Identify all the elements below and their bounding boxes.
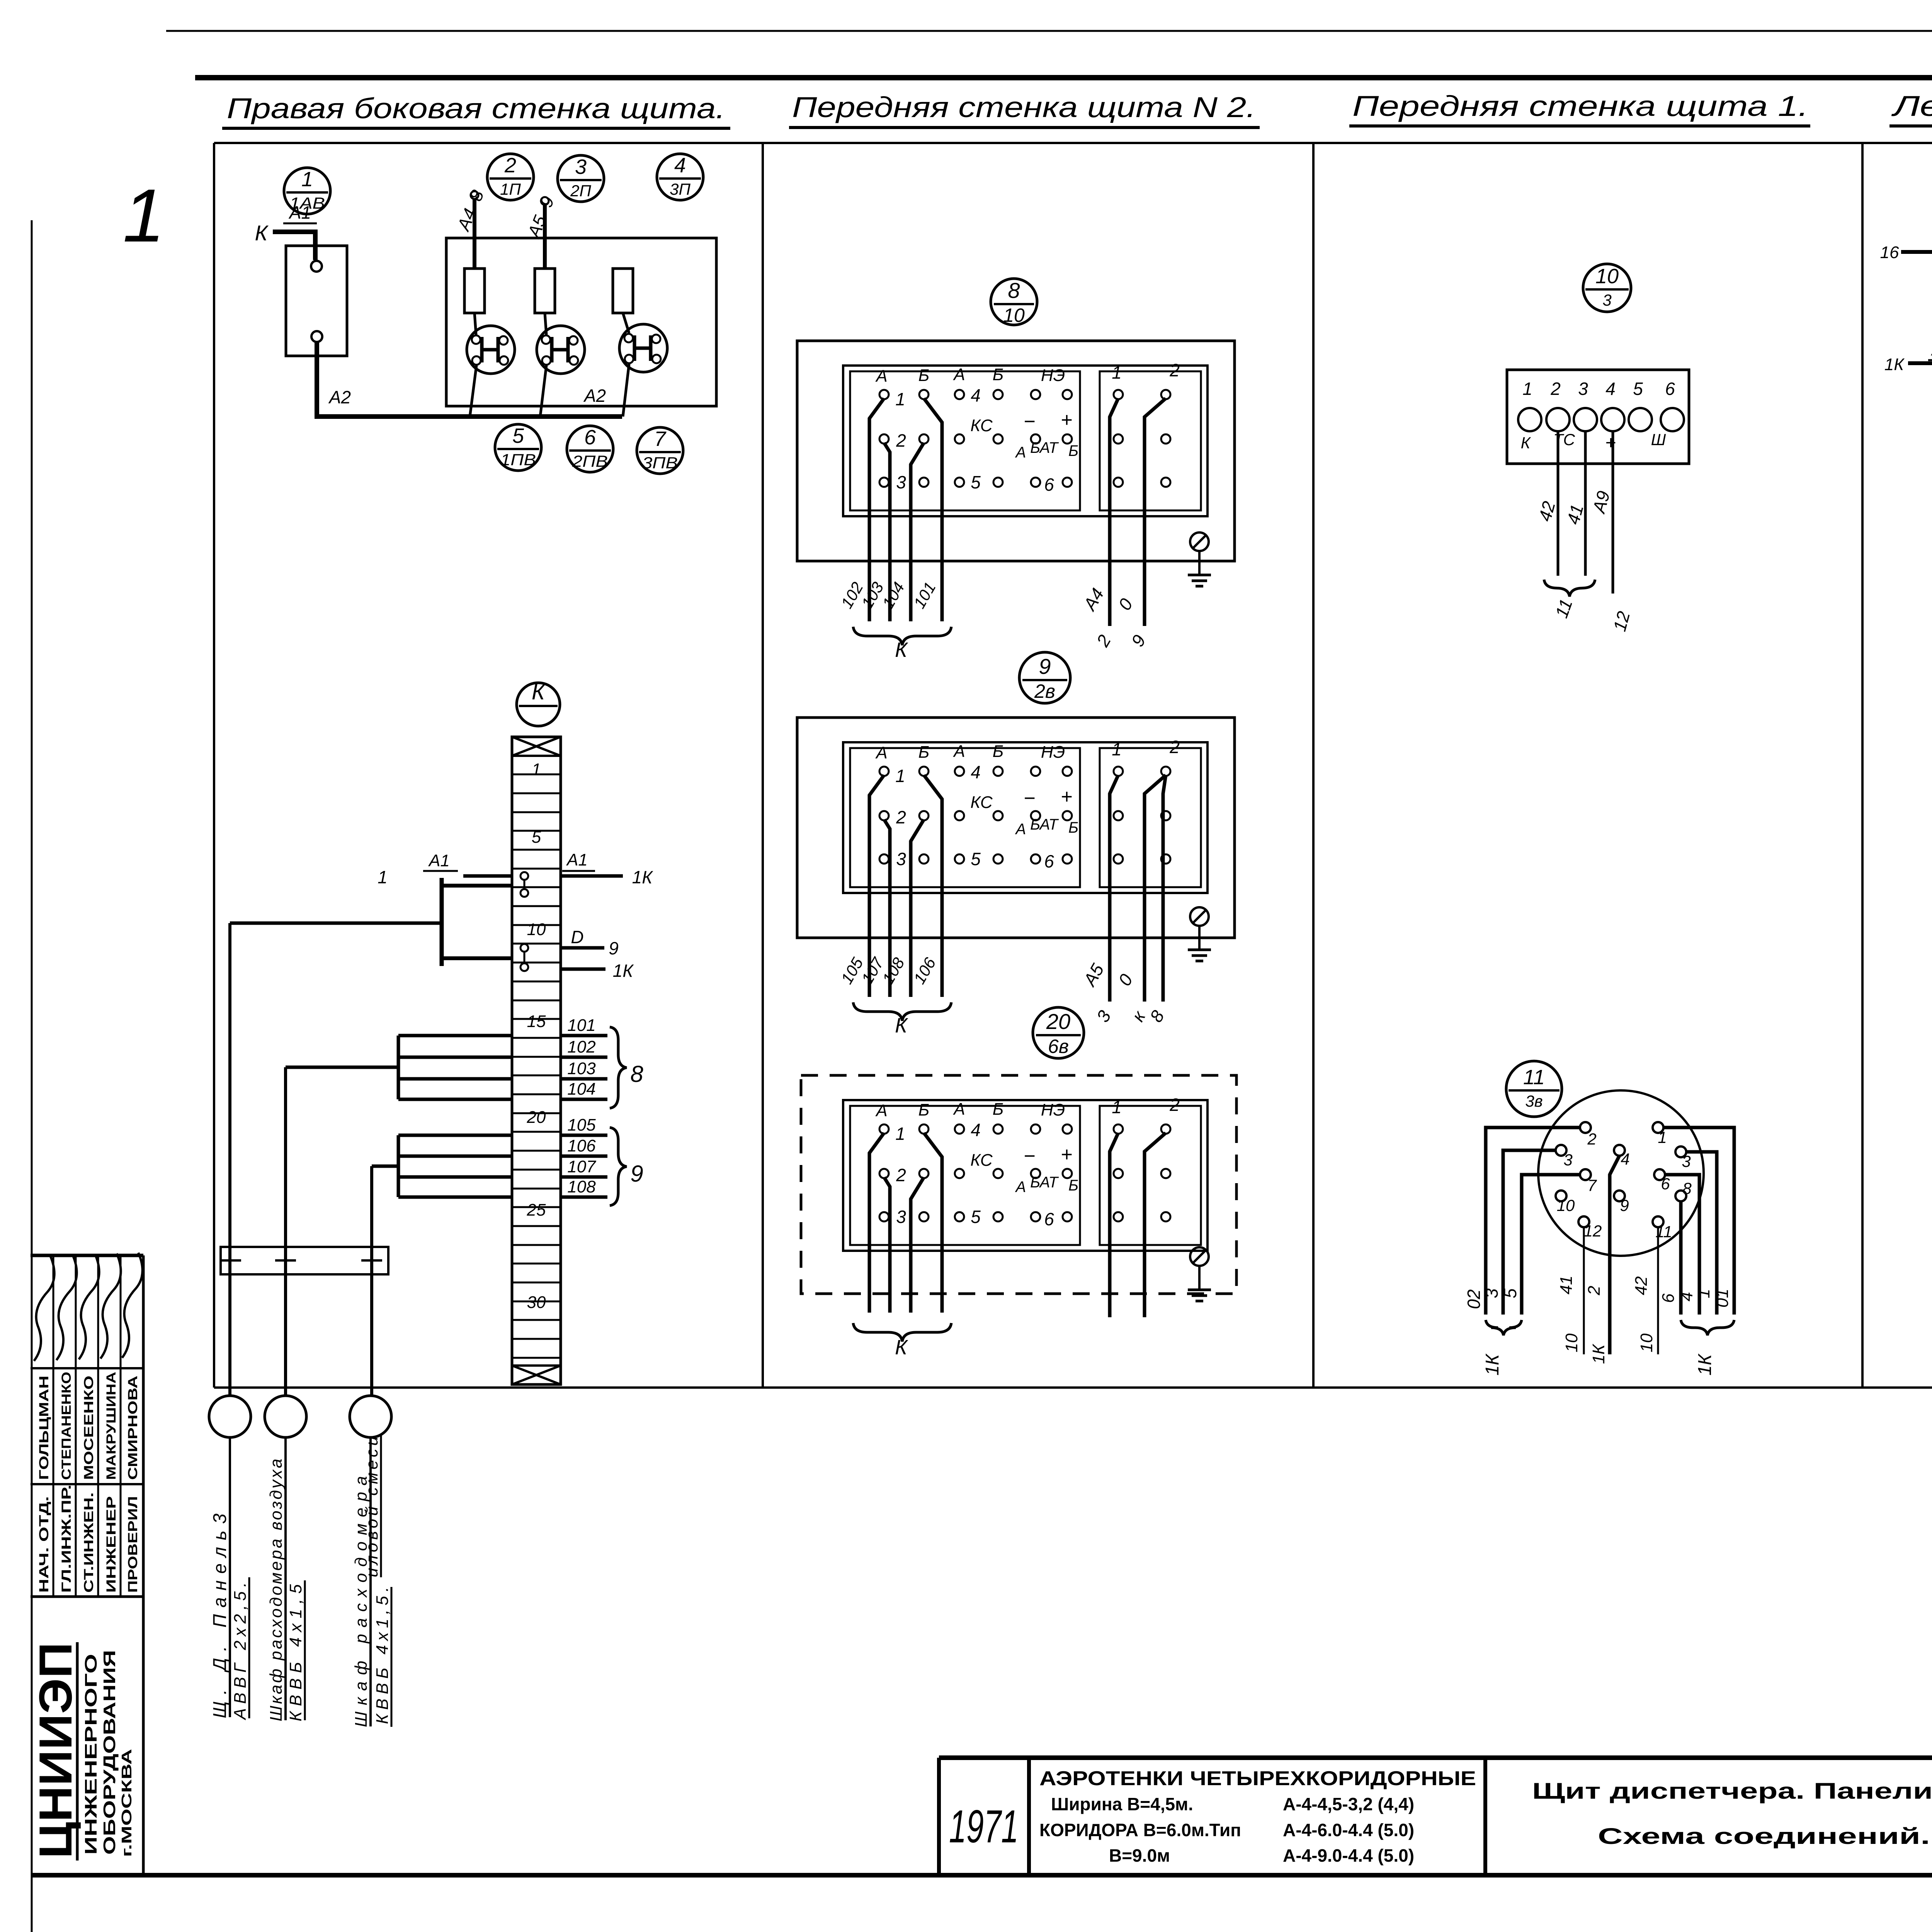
svg-text:8: 8 xyxy=(1146,1007,1168,1026)
block 8/10 terminals xyxy=(879,390,1170,487)
instrument block 20/6v label circle xyxy=(1033,1007,1084,1058)
wire A2 from switch to lamps xyxy=(317,342,622,417)
instrument block 8/10 label circle xyxy=(991,278,1037,326)
stamp roles column xyxy=(37,1485,140,1593)
lamp HL2 xyxy=(537,313,585,417)
svg-text:108: 108 xyxy=(567,1177,596,1196)
svg-text:МОСЕЕНКО: МОСЕЕНКО xyxy=(82,1376,96,1480)
block 20/6v terminal labels xyxy=(875,1095,1179,1229)
block 9/2v right wires xyxy=(1079,775,1168,1026)
svg-text:А: А xyxy=(952,365,965,384)
svg-text:БАТ: БАТ xyxy=(1030,1174,1059,1191)
svg-text:5: 5 xyxy=(512,424,524,447)
wire 16-A7 to transformer xyxy=(1880,228,1932,274)
wire A1-1K right xyxy=(561,850,653,887)
node 5/1PV xyxy=(495,424,541,471)
wire 1-A1 left xyxy=(378,851,512,887)
svg-text:9: 9 xyxy=(609,938,619,958)
fuse F1 xyxy=(464,269,485,313)
wire 1K-A8 from transformer xyxy=(1884,316,1932,374)
svg-text:2: 2 xyxy=(896,430,906,451)
svg-text:1: 1 xyxy=(1112,362,1122,383)
svg-text:2: 2 xyxy=(896,1165,906,1185)
block 20/6v terminals xyxy=(879,1124,1170,1221)
svg-text:1К: 1К xyxy=(632,867,654,887)
title object description xyxy=(1039,1767,1476,1866)
node 1/1AV xyxy=(284,168,330,214)
svg-text:104: 104 xyxy=(567,1080,595,1099)
block 9/2v wire labels 105,107,108,106 xyxy=(837,954,939,987)
wire 42 from terminal 2 xyxy=(1534,431,1559,576)
svg-text:5: 5 xyxy=(971,1207,981,1227)
stamp signatures xyxy=(34,1253,143,1361)
svg-text:10: 10 xyxy=(1562,1333,1581,1352)
svg-text:6в: 6в xyxy=(1048,1036,1069,1057)
fuse F2 xyxy=(535,269,555,313)
svg-text:12: 12 xyxy=(1584,1222,1602,1240)
lamp panel box xyxy=(446,238,716,406)
svg-text:1: 1 xyxy=(895,389,905,409)
svg-text:5: 5 xyxy=(1633,379,1643,399)
svg-text:СТЕПАНЕНКО: СТЕПАНЕНКО xyxy=(59,1372,74,1480)
svg-text:8: 8 xyxy=(1008,278,1020,303)
svg-text:20: 20 xyxy=(527,1108,546,1127)
header: Perednyaya stenka 1 xyxy=(1349,90,1810,126)
svg-text:А: А xyxy=(952,742,965,761)
svg-text:3: 3 xyxy=(1682,1152,1690,1170)
svg-text:1: 1 xyxy=(378,867,388,887)
node 3/2P xyxy=(558,155,604,202)
svg-text:3: 3 xyxy=(896,472,906,492)
svg-text:КС: КС xyxy=(970,416,993,435)
switch SA1 box xyxy=(286,246,347,356)
svg-text:1: 1 xyxy=(1694,1289,1713,1298)
svg-text:НЭ: НЭ xyxy=(1041,743,1065,762)
svg-text:Ш: Ш xyxy=(1651,430,1666,449)
node 4/3P xyxy=(657,154,703,200)
svg-text:Передняя стенка щита N 2.: Передняя стенка щита N 2. xyxy=(792,91,1256,123)
block 8/10 cable brace K xyxy=(853,627,951,662)
svg-text:30: 30 xyxy=(527,1293,546,1312)
cable brace 11 xyxy=(1544,580,1595,621)
svg-text:Правая боковая стенка щита.: Правая боковая стенка щита. xyxy=(227,92,725,124)
svg-text:А2: А2 xyxy=(583,386,606,406)
svg-text:ТС: ТС xyxy=(1553,430,1575,449)
svg-text:Б: Б xyxy=(993,365,1004,384)
svg-text:К: К xyxy=(895,638,908,662)
svg-text:А1: А1 xyxy=(428,851,450,870)
svg-text:Б: Б xyxy=(993,1100,1004,1119)
svg-text:106: 106 xyxy=(567,1136,596,1155)
panel section boxes xyxy=(214,143,1932,1388)
svg-text:4: 4 xyxy=(674,154,686,177)
wire A4 8 xyxy=(453,187,488,269)
svg-text:1К: 1К xyxy=(613,961,634,981)
svg-text:6: 6 xyxy=(1044,474,1054,495)
svg-text:9: 9 xyxy=(1127,631,1150,650)
svg-text:6: 6 xyxy=(1044,851,1054,871)
svg-text:108: 108 xyxy=(879,954,908,987)
block 20/6v ground xyxy=(1188,1247,1211,1301)
svg-text:1: 1 xyxy=(1658,1128,1667,1146)
svg-text:К: К xyxy=(255,221,269,245)
svg-text:12: 12 xyxy=(1609,609,1634,633)
svg-text:А1: А1 xyxy=(566,850,588,869)
svg-text:Б: Б xyxy=(918,366,930,385)
svg-text:1ПВ: 1ПВ xyxy=(500,451,536,469)
svg-text:7: 7 xyxy=(1587,1176,1597,1194)
jumper links on strip K xyxy=(520,872,528,971)
cable circle Shch.D. xyxy=(209,1396,251,1721)
svg-text:20: 20 xyxy=(1046,1009,1070,1034)
lamp HL3 xyxy=(619,313,667,417)
title drawing name xyxy=(1532,1779,1932,1849)
block 9/2v ground xyxy=(1188,907,1211,961)
labels 101-104 xyxy=(561,1016,643,1108)
svg-text:3: 3 xyxy=(1092,1007,1115,1026)
block 9/2v cable brace K xyxy=(853,1002,951,1037)
handwritten margin mark 1 xyxy=(123,173,165,258)
svg-text:3в: 3в xyxy=(1525,1092,1543,1110)
labels 105-108 xyxy=(561,1116,643,1206)
svg-text:иловой смеси: иловой смеси xyxy=(362,1436,381,1577)
svg-text:А: А xyxy=(952,1100,965,1119)
svg-text:1К: 1К xyxy=(1482,1353,1503,1376)
svg-text:3ПВ: 3ПВ xyxy=(642,454,678,472)
svg-text:Б: Б xyxy=(1068,819,1078,836)
svg-text:КС: КС xyxy=(970,793,993,812)
svg-text:9: 9 xyxy=(630,1161,643,1187)
svg-text:А9: А9 xyxy=(1588,489,1614,516)
svg-text:ГОЛЬЦМАН: ГОЛЬЦМАН xyxy=(37,1376,51,1480)
block 8/10 ground xyxy=(1188,532,1211,586)
svg-text:Ширина В=4,5м.: Ширина В=4,5м. xyxy=(1051,1794,1193,1814)
svg-text:А-4-6.0-4.4 (5.0): А-4-6.0-4.4 (5.0) xyxy=(1283,1820,1414,1840)
grounding busbar xyxy=(220,1247,388,1274)
svg-text:8: 8 xyxy=(465,187,488,204)
cable circle vozdukh xyxy=(265,1396,306,1721)
svg-text:42: 42 xyxy=(1632,1276,1651,1295)
svg-text:D: D xyxy=(571,927,583,947)
svg-text:Б: Б xyxy=(918,743,930,762)
wire 41 from terminal 3 xyxy=(1563,431,1587,576)
header: Perednyaya stenka N2 xyxy=(789,91,1260,128)
svg-text:104: 104 xyxy=(879,579,908,611)
svg-text:Б: Б xyxy=(918,1100,930,1119)
lamp HL1 xyxy=(467,313,515,417)
svg-text:А: А xyxy=(875,367,887,386)
svg-text:9: 9 xyxy=(1620,1196,1629,1214)
svg-text:1: 1 xyxy=(1112,739,1122,759)
block 9/2v terminal labels xyxy=(875,737,1179,871)
terminal strip K label circle xyxy=(517,679,560,726)
connector middle wires 41,2 xyxy=(1557,1156,1619,1364)
svg-text:5: 5 xyxy=(971,472,981,492)
svg-text:КС: КС xyxy=(970,1151,993,1170)
wire bundle 9 rows xyxy=(372,1135,512,1396)
svg-text:А: А xyxy=(1015,1179,1026,1196)
svg-text:9: 9 xyxy=(536,193,558,210)
instrument block 9/2v label circle xyxy=(1019,652,1070,703)
svg-text:НЭ: НЭ xyxy=(1041,366,1065,385)
svg-text:А5: А5 xyxy=(1079,960,1108,990)
svg-text:5: 5 xyxy=(532,828,541,847)
block 8/10 terminal labels xyxy=(875,360,1179,495)
block 20/6v right wires xyxy=(1110,1133,1166,1317)
svg-text:Щ. Д. Панель3: Щ. Д. Панель3 xyxy=(210,1514,230,1718)
svg-text:4: 4 xyxy=(1605,379,1616,399)
svg-text:42: 42 xyxy=(1534,499,1559,524)
svg-text:106: 106 xyxy=(910,954,939,987)
instrument block 8/10 housing xyxy=(797,341,1235,561)
svg-text:10: 10 xyxy=(1595,265,1619,288)
svg-text:107: 107 xyxy=(567,1157,596,1176)
instrument block 9/2v housing xyxy=(797,718,1235,938)
svg-text:А-4-4,5-3,2 (4,4): А-4-4,5-3,2 (4,4) xyxy=(1283,1794,1414,1814)
svg-text:1: 1 xyxy=(895,1124,905,1144)
svg-text:3: 3 xyxy=(896,1207,906,1227)
svg-text:10: 10 xyxy=(1557,1196,1575,1214)
svg-text:41: 41 xyxy=(1563,502,1587,527)
svg-text:3: 3 xyxy=(1563,1151,1572,1169)
svg-text:6: 6 xyxy=(1659,1293,1678,1303)
svg-text:В=9.0м: В=9.0м xyxy=(1109,1845,1170,1866)
svg-text:10: 10 xyxy=(527,920,546,939)
svg-text:+: + xyxy=(1061,786,1072,808)
block 8/10 wire labels 102,103,104,101 xyxy=(837,579,939,611)
header: Levaya bokovaya stenka xyxy=(1889,90,1932,126)
svg-text:1: 1 xyxy=(301,168,313,191)
svg-text:105: 105 xyxy=(567,1116,596,1134)
svg-text:10: 10 xyxy=(1003,304,1025,326)
svg-text:4: 4 xyxy=(1621,1150,1629,1168)
svg-text:3: 3 xyxy=(1481,1288,1502,1298)
svg-text:Б: Б xyxy=(1068,442,1078,459)
svg-text:6: 6 xyxy=(584,426,596,449)
svg-text:1: 1 xyxy=(1112,1097,1122,1117)
svg-text:ЦНИИЭП: ЦНИИЭП xyxy=(30,1642,82,1859)
svg-text:+: + xyxy=(1605,433,1616,453)
wire A5 9 xyxy=(523,193,558,269)
svg-text:02: 02 xyxy=(1464,1289,1484,1309)
svg-text:2: 2 xyxy=(1550,379,1561,399)
cable circle ilovaya smes xyxy=(350,1396,392,1727)
svg-text:3П: 3П xyxy=(670,180,690,198)
wire 1K right lower xyxy=(561,961,634,981)
svg-text:−: − xyxy=(1024,1145,1035,1167)
svg-text:НАЧ. ОТД.: НАЧ. ОТД. xyxy=(37,1496,51,1593)
svg-text:11: 11 xyxy=(1523,1066,1545,1089)
svg-text:К: К xyxy=(895,1014,908,1037)
svg-text:4: 4 xyxy=(1677,1292,1696,1301)
svg-text:1: 1 xyxy=(123,173,165,258)
svg-text:−: − xyxy=(1024,787,1035,810)
svg-text:А8: А8 xyxy=(1930,340,1932,359)
svg-text:15: 15 xyxy=(527,1012,546,1031)
svg-text:+: + xyxy=(1061,1143,1072,1166)
svg-text:БАТ: БАТ xyxy=(1030,816,1059,833)
connector right wires 42,6,4,1,01 xyxy=(1632,1128,1734,1376)
svg-text:1К: 1К xyxy=(1695,1353,1715,1376)
svg-text:3: 3 xyxy=(896,849,906,869)
svg-text:3: 3 xyxy=(1578,379,1588,399)
svg-text:9: 9 xyxy=(1039,654,1051,679)
svg-text:7: 7 xyxy=(654,427,667,451)
svg-text:Шкаф расходомера воздуха: Шкаф расходомера воздуха xyxy=(267,1459,286,1721)
instrument block 20/6v housing xyxy=(801,1075,1236,1294)
svg-text:1: 1 xyxy=(532,760,541,779)
svg-text:3: 3 xyxy=(1602,291,1611,309)
svg-text:2П: 2П xyxy=(570,182,591,200)
svg-text:3: 3 xyxy=(575,155,587,179)
svg-text:6: 6 xyxy=(1661,1175,1670,1193)
svg-text:А: А xyxy=(1015,444,1026,461)
svg-text:11: 11 xyxy=(1551,596,1576,621)
svg-text:КВВБ 4х1,5.: КВВБ 4х1,5. xyxy=(373,1587,392,1724)
svg-text:4: 4 xyxy=(971,762,981,782)
svg-text:16: 16 xyxy=(1880,243,1899,262)
svg-text:5: 5 xyxy=(971,849,981,869)
svg-text:А: А xyxy=(875,743,887,762)
bus wire to cable 1 xyxy=(230,878,512,1396)
node 6/2PV xyxy=(567,426,613,472)
svg-text:10: 10 xyxy=(1637,1333,1656,1352)
node 7/3PV xyxy=(637,427,683,474)
svg-text:А1: А1 xyxy=(288,202,311,223)
wire bundle 8 rows xyxy=(286,1036,512,1396)
wire A9 from terminal 4 xyxy=(1588,431,1634,633)
stamp institute name xyxy=(30,1642,134,1861)
svg-text:Щит диспетчера. Панели 1,2.: Щит диспетчера. Панели 1,2. xyxy=(1532,1779,1932,1804)
svg-text:К: К xyxy=(532,679,546,704)
svg-text:5: 5 xyxy=(1500,1288,1520,1298)
svg-text:1П: 1П xyxy=(500,180,521,198)
svg-text:Передняя стенка щита 1.: Передняя стенка щита 1. xyxy=(1352,90,1808,122)
terminal box 10/3 xyxy=(1507,370,1689,464)
svg-text:ПРОВЕРИЛ: ПРОВЕРИЛ xyxy=(126,1496,140,1593)
stamp names column xyxy=(37,1372,140,1480)
svg-text:Схема соединений.: Схема соединений. xyxy=(1598,1824,1930,1849)
svg-text:КОРИДОРА В=6.0м.Тип: КОРИДОРА В=6.0м.Тип xyxy=(1039,1820,1241,1840)
svg-text:СМИРНОВА: СМИРНОВА xyxy=(126,1376,140,1480)
block 8/10 wires to strip K xyxy=(869,398,942,621)
connector left wires 02,3,5 xyxy=(1464,1128,1580,1376)
block 20/6v cable brace K xyxy=(853,1323,951,1359)
svg-text:ОБОРУДОВАНИЯ: ОБОРУДОВАНИЯ xyxy=(100,1650,119,1855)
svg-text:103: 103 xyxy=(567,1059,596,1078)
svg-text:2: 2 xyxy=(1092,631,1115,650)
svg-text:МАКРУШИНА: МАКРУШИНА xyxy=(104,1372,119,1480)
terminal strip K xyxy=(512,737,561,1384)
svg-text:А2: А2 xyxy=(328,387,351,407)
block 20/6v wires to strip K xyxy=(869,1133,942,1313)
node 10/3 label circle xyxy=(1583,264,1631,312)
svg-text:6: 6 xyxy=(1044,1209,1054,1229)
svg-text:НЭ: НЭ xyxy=(1041,1100,1065,1119)
svg-text:1К: 1К xyxy=(1589,1344,1608,1364)
svg-text:Б: Б xyxy=(993,742,1004,761)
svg-text:1: 1 xyxy=(1522,379,1532,399)
title block frame xyxy=(32,1758,1932,1875)
svg-text:2: 2 xyxy=(1587,1130,1596,1148)
svg-text:1: 1 xyxy=(895,766,905,786)
svg-text:41: 41 xyxy=(1557,1276,1576,1294)
connector 11/3v label circle xyxy=(1506,1061,1562,1117)
svg-text:2: 2 xyxy=(1169,1095,1180,1115)
svg-text:Б: Б xyxy=(1068,1177,1078,1194)
svg-text:СТ.ИНЖЕН.: СТ.ИНЖЕН. xyxy=(82,1492,96,1593)
svg-text:0: 0 xyxy=(1114,595,1137,614)
svg-text:БАТ: БАТ xyxy=(1030,439,1059,456)
svg-text:8: 8 xyxy=(630,1061,643,1087)
fuse F3 xyxy=(613,269,633,313)
svg-text:1К: 1К xyxy=(1884,355,1905,374)
svg-text:25: 25 xyxy=(527,1201,546,1219)
svg-text:2: 2 xyxy=(1585,1286,1604,1296)
block 8/10 right wires xyxy=(1079,398,1166,650)
svg-text:6: 6 xyxy=(1665,379,1675,399)
drawing frame top thick line xyxy=(195,75,1932,80)
wire K-A1 to switch xyxy=(255,202,317,260)
svg-text:8: 8 xyxy=(1682,1179,1692,1197)
svg-text:АЭРОТЕНКИ ЧЕТЫРЕХКОРИДОРНЫЕ: АЭРОТЕНКИ ЧЕТЫРЕХКОРИДОРНЫЕ xyxy=(1039,1767,1476,1790)
svg-text:А4: А4 xyxy=(1079,585,1108,614)
svg-text:АВВГ 2х2,5.: АВВГ 2х2,5. xyxy=(231,1582,250,1721)
svg-text:Левая боковая стенка щита.: Левая боковая стенка щита. xyxy=(1891,90,1932,122)
svg-text:−: − xyxy=(1024,410,1035,433)
svg-text:2: 2 xyxy=(1169,737,1180,757)
svg-text:2ПВ: 2ПВ xyxy=(572,452,608,470)
svg-text:4: 4 xyxy=(971,1120,981,1140)
block 9/2v wires to strip K xyxy=(869,775,942,997)
wire D-9 right xyxy=(561,927,619,958)
svg-text:01: 01 xyxy=(1713,1289,1732,1308)
node 2/1P xyxy=(487,154,534,200)
connector plug body xyxy=(1538,1090,1704,1256)
block 9/2v terminals xyxy=(879,767,1170,864)
svg-text:2: 2 xyxy=(504,154,516,177)
header: Pravaya bokovaya stenka xyxy=(222,92,730,128)
svg-text:А: А xyxy=(875,1101,887,1120)
connector pins xyxy=(1556,1122,1692,1241)
svg-text:г.МОСКВА: г.МОСКВА xyxy=(119,1749,134,1857)
svg-text:ИНЖЕНЕР: ИНЖЕНЕР xyxy=(104,1496,119,1593)
svg-text:2: 2 xyxy=(1169,360,1180,380)
svg-text:А: А xyxy=(1015,821,1026,838)
svg-text:К: К xyxy=(895,1336,908,1359)
svg-text:102: 102 xyxy=(567,1037,595,1056)
svg-text:ИНЖЕНЕРНОГО: ИНЖЕНЕРНОГО xyxy=(82,1654,100,1855)
svg-text:1971: 1971 xyxy=(949,1801,1019,1852)
svg-text:0: 0 xyxy=(1114,970,1137,989)
svg-text:К: К xyxy=(1521,434,1531,452)
svg-text:ГЛ.ИНЖ.ПР.: ГЛ.ИНЖ.ПР. xyxy=(59,1485,74,1593)
svg-text:А-4-9.0-4.4 (5.0): А-4-9.0-4.4 (5.0) xyxy=(1283,1845,1414,1866)
svg-text:2: 2 xyxy=(896,807,906,827)
stamp box xyxy=(31,1255,143,1875)
svg-text:2в: 2в xyxy=(1034,680,1055,702)
svg-text:4: 4 xyxy=(971,385,981,405)
svg-text:101: 101 xyxy=(910,579,939,611)
svg-text:+: + xyxy=(1061,409,1072,431)
svg-text:КВВБ 4х1,5: КВВБ 4х1,5 xyxy=(286,1584,305,1721)
svg-text:101: 101 xyxy=(567,1016,595,1035)
